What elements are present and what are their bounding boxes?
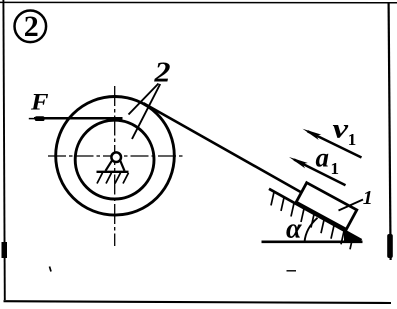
pulley vertical centerline	[114, 86, 116, 246]
svg-text:F: F	[30, 89, 49, 114]
frame top border	[0, 1, 397, 3]
velocity v1 arrowhead	[303, 129, 322, 140]
svg-text:α: α	[286, 214, 302, 245]
svg-text:1: 1	[331, 159, 340, 178]
frame right border ink blob	[387, 234, 393, 258]
pivot support hatching	[97, 173, 129, 184]
force F line	[34, 117, 123, 120]
pulley inner circle (radius 2)	[75, 120, 154, 199]
pivot pin	[111, 152, 121, 162]
pulley outer circle (radius 2)	[56, 97, 175, 216]
incline vertex wedge	[344, 230, 363, 243]
pulley horizontal centerline	[48, 155, 185, 157]
svg-text:2: 2	[153, 57, 170, 89]
svg-text:1: 1	[348, 130, 357, 149]
label 2 leader to inner circle	[132, 84, 160, 139]
frame left border ink blob	[2, 242, 8, 258]
acceleration a1 arrow line	[294, 160, 346, 186]
incline surface line	[269, 189, 362, 240]
block 1 rectangle	[296, 183, 357, 230]
svg-text:1: 1	[363, 187, 373, 209]
frame bottom border	[4, 301, 392, 303]
incline hatching	[271, 192, 353, 249]
svg-text:2: 2	[24, 10, 39, 43]
acceleration a1 arrowhead	[289, 157, 308, 168]
pivot support base line	[97, 171, 129, 173]
force F arrowhead blob	[35, 116, 45, 121]
frame right border	[389, 3, 391, 260]
angle alpha arc	[305, 218, 318, 242]
label 2 leader to outer circle	[129, 84, 159, 115]
rope from pulley to block	[144, 103, 302, 192]
stray mark dash bottom middle	[287, 270, 297, 272]
frame left border	[3, 0, 4, 300]
pivot support triangle legs	[106, 161, 125, 171]
force F arrowhead tip	[29, 118, 36, 120]
svg-text:v: v	[333, 114, 350, 144]
velocity v1 arrow line	[308, 131, 362, 157]
incline base line	[262, 241, 363, 244]
block label 1 leader	[339, 200, 364, 211]
stray mark comma bottom left	[50, 267, 52, 272]
svg-text:a: a	[316, 143, 330, 173]
figure number circle	[14, 10, 46, 42]
